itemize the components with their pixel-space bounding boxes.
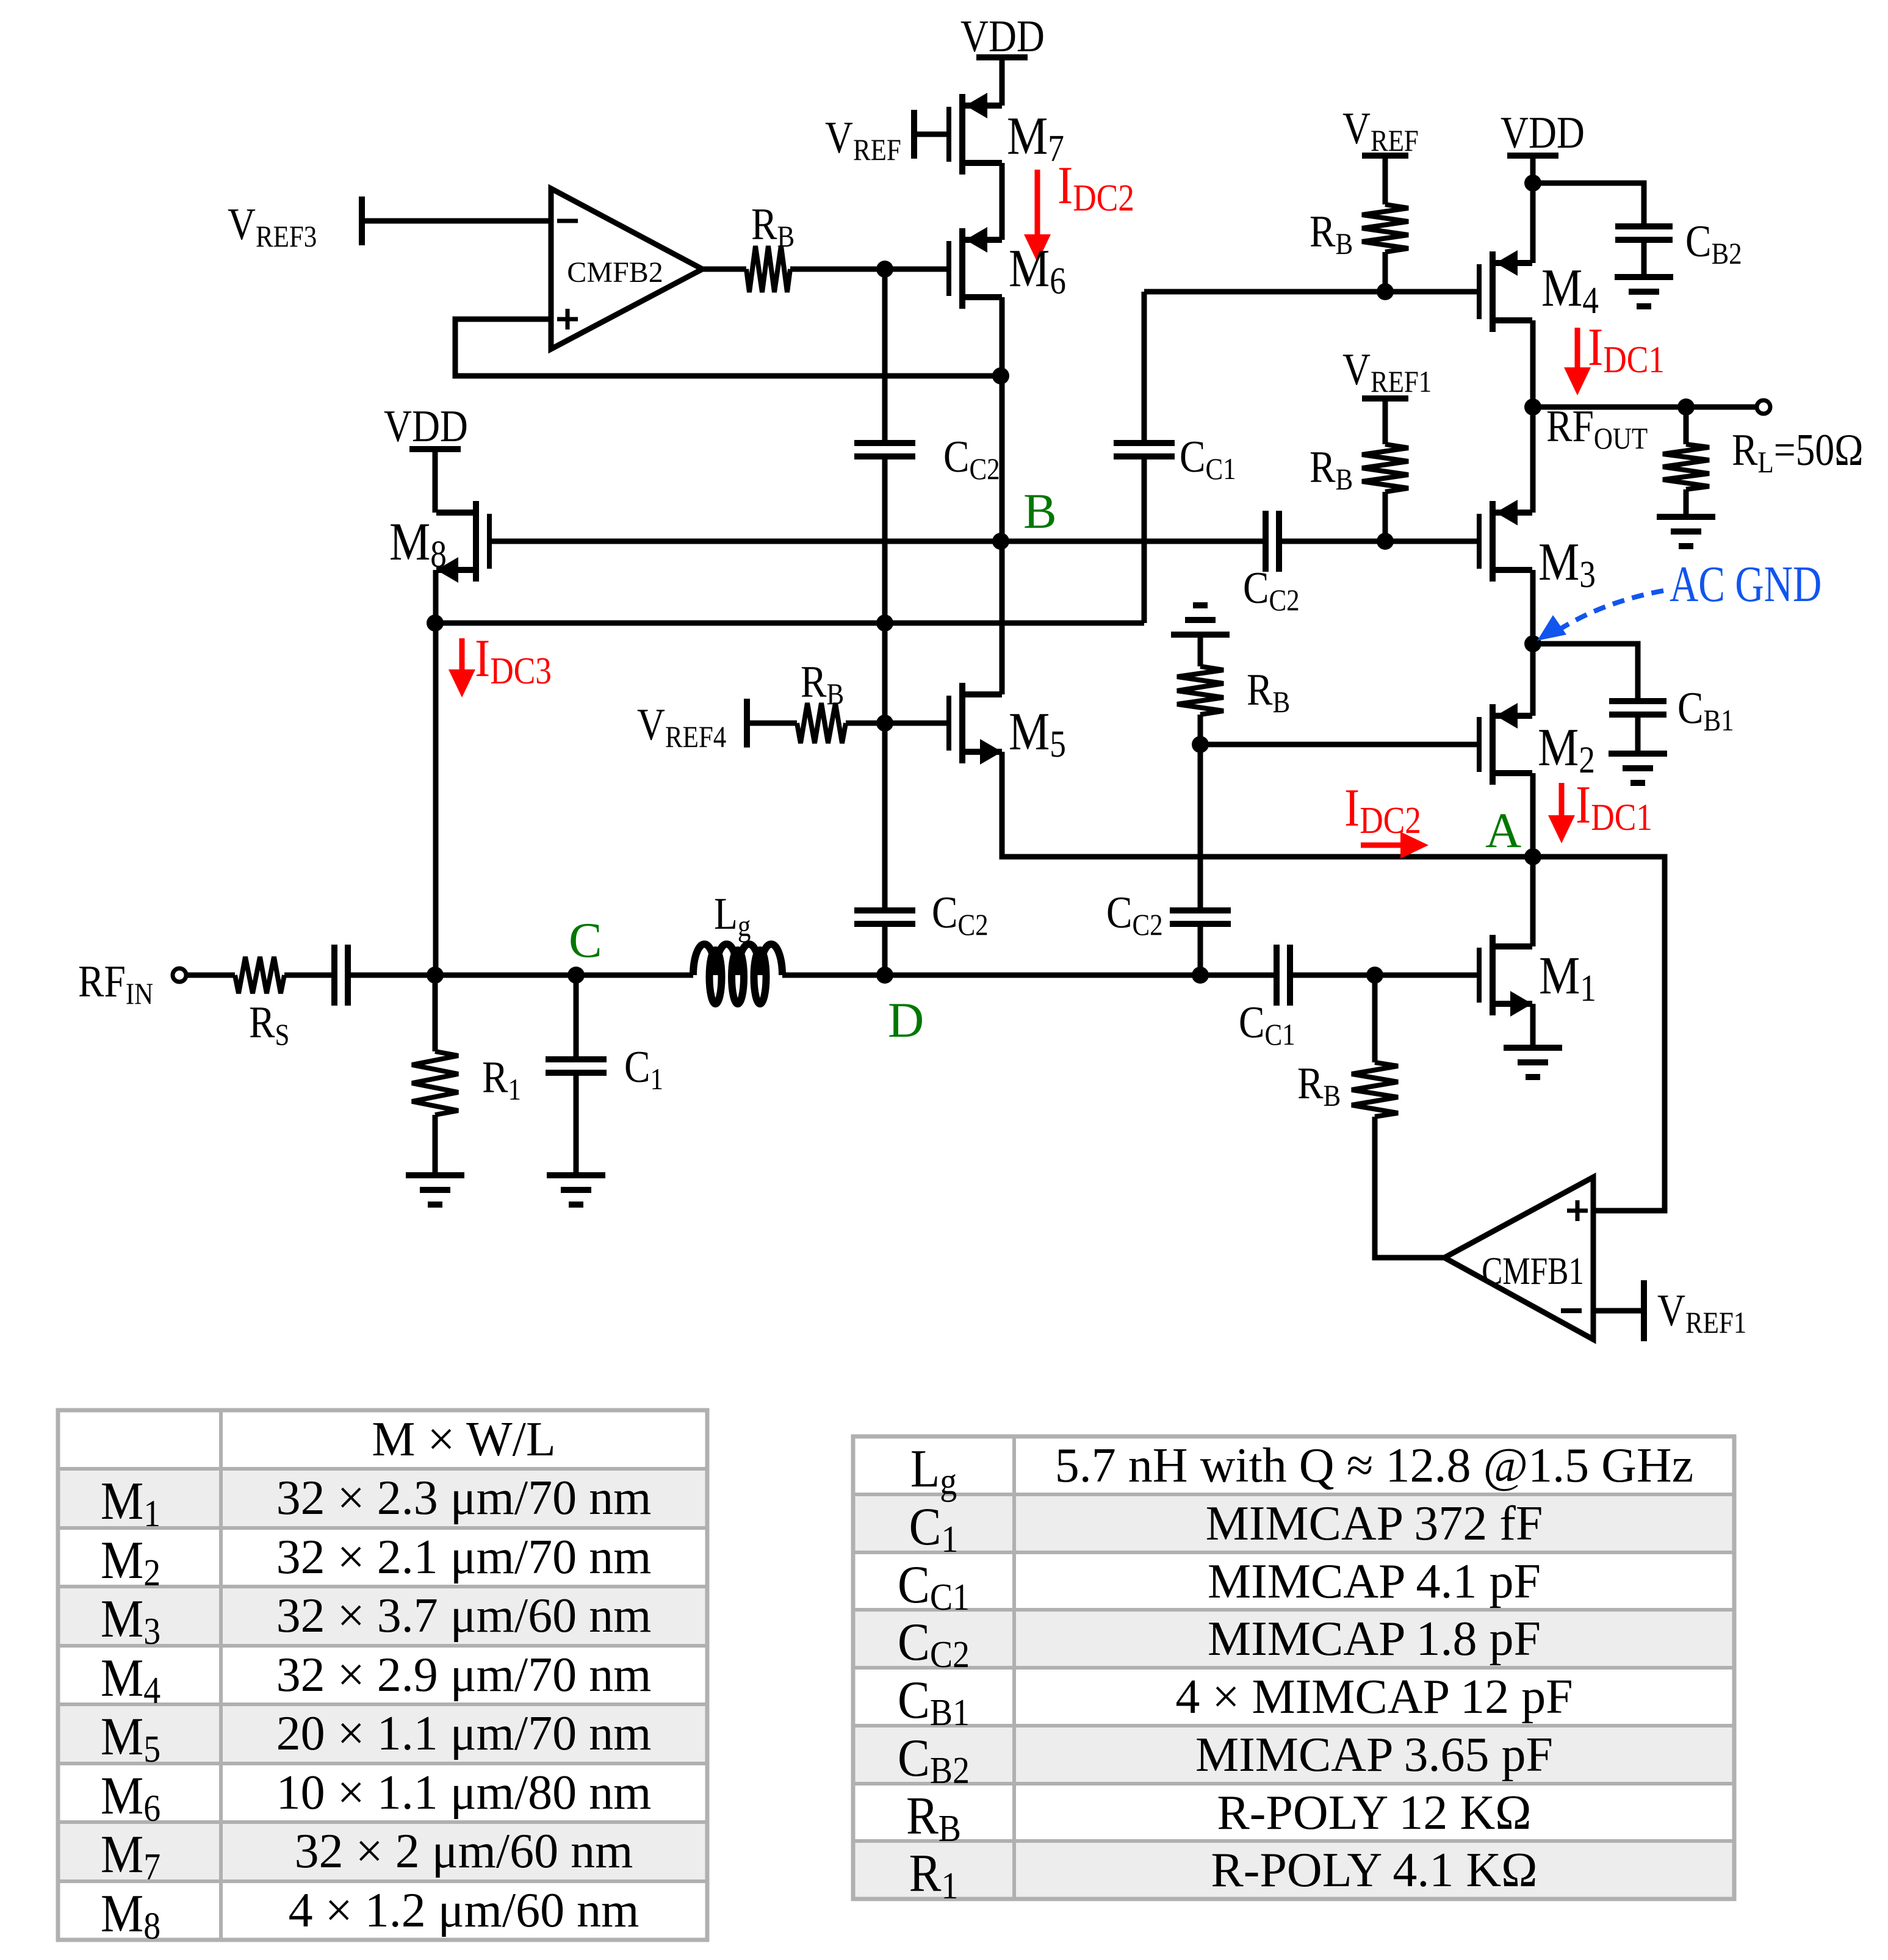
svg-text:RL=50Ω: RL=50Ω: [1732, 425, 1864, 480]
node dot VDD/CB2 junction: [1524, 175, 1541, 192]
svg-text:VDD: VDD: [1501, 108, 1585, 157]
wire RL stem: [1684, 407, 1689, 444]
svg-text:MIMCAP 372 fF: MIMCAP 372 fF: [1206, 1497, 1543, 1551]
svg-text:VDD: VDD: [960, 12, 1045, 61]
wire CC1 vertical upper to M4 gate row: [1142, 292, 1147, 443]
transistor M3: [1477, 514, 1482, 569]
wire M1-gate node to CMFB1 RB: [1372, 975, 1378, 1062]
resistor Rs: [235, 957, 284, 993]
ground (CB1): [1609, 751, 1667, 757]
node dot CC2/row junction: [876, 614, 893, 632]
wire CC2 node to CC1 series: [1200, 973, 1277, 978]
resistor R1: [412, 1051, 458, 1115]
ground (CB2): [1615, 274, 1673, 280]
terminal RFIN circle: [173, 968, 186, 982]
svg-text:32 × 2.3 μm/70 nm: 32 × 2.3 μm/70 nm: [276, 1471, 652, 1525]
wire C1 to ground: [574, 1073, 579, 1175]
wire VDD dot to CB2: [1533, 183, 1644, 223]
wire VDD to M4 source: [1530, 183, 1536, 263]
wire CC1 vertical lower: [1142, 456, 1147, 623]
resistor RB (M5 gate bias): [797, 703, 846, 743]
wire M4 drain to RFOUT node: [1530, 320, 1536, 407]
ground (R1): [406, 1172, 464, 1178]
capacitor CB1: [1609, 698, 1666, 704]
inductor Lg: [693, 944, 782, 975]
svg-text:M × W/L: M × W/L: [372, 1413, 555, 1466]
svg-text:AC GND: AC GND: [1670, 556, 1821, 613]
svg-text:32 × 2.1 μm/70 nm: 32 × 2.1 μm/70 nm: [276, 1530, 652, 1584]
table transistor sizes: [58, 1469, 707, 1528]
svg-text:VDD: VDD: [384, 402, 468, 451]
node dot RFOUT: [1524, 398, 1541, 416]
node dot A: [1524, 848, 1541, 865]
capacitor CC2 (upper compensation): [854, 440, 915, 446]
svg-text:4 × 1.2 μm/60 nm: 4 × 1.2 μm/60 nm: [289, 1884, 640, 1937]
wire AC-GND node to CB1: [1533, 644, 1638, 698]
wire RL to ground: [1684, 489, 1689, 517]
svg-text:B: B: [1023, 483, 1057, 539]
wire CC2 to row: [882, 456, 888, 623]
capacitor CC1 (series at RF row): [1274, 945, 1280, 1006]
svg-text:5.7 nH with Q ≈ 12.8 @1.5 GHz: 5.7 nH with Q ≈ 12.8 @1.5 GHz: [1055, 1439, 1693, 1493]
wire M5-gate node down to CC2: [882, 723, 888, 910]
ground (RL): [1657, 514, 1715, 520]
CMFB2 plus sign: [557, 317, 578, 322]
wire RB to M2 gate node: [1198, 715, 1203, 744]
terminal VREF (M7 gate): [911, 110, 917, 159]
terminal VREF (M4 branch): [1362, 153, 1408, 159]
svg-text:10 × 1.1 μm/80 nm: 10 × 1.1 μm/80 nm: [276, 1766, 652, 1820]
capacitor CC2 (left lower): [854, 907, 915, 913]
ground (C1): [547, 1172, 605, 1178]
wire M2 gate row: [1200, 742, 1477, 748]
wire inv-ground to RB: [1198, 635, 1203, 666]
wire M8-drain row: [435, 621, 1144, 626]
wire CB1 to ground: [1635, 715, 1641, 754]
capacitor CC2 (series at B): [1263, 511, 1269, 572]
resistor RB (M2 gate bias): [1177, 666, 1223, 715]
resistor RB (M4 gate bias): [1362, 204, 1408, 252]
wire M2-gate node down to CC2: [1198, 744, 1203, 910]
wire RB to M4 gate row: [1383, 252, 1388, 292]
transistor M6: [946, 241, 951, 296]
power VDD symbol (M4 branch): [1507, 153, 1558, 159]
svg-text:MIMCAP 3.65 pF: MIMCAP 3.65 pF: [1195, 1728, 1553, 1782]
current arrow IDC3: [459, 638, 465, 669]
svg-text:D: D: [888, 992, 924, 1048]
node dot M8 drain row junction: [427, 614, 444, 632]
wire M2 source to AC-GND node: [1530, 644, 1536, 716]
svg-text:A: A: [1485, 802, 1521, 858]
node dot M5 gate node: [876, 715, 893, 732]
wire R1 to ground: [433, 1115, 438, 1175]
capacitor C1: [546, 1056, 607, 1062]
node dot M2 gate node: [1192, 736, 1209, 753]
node dot B: [992, 533, 1009, 550]
transistor M4: [1477, 264, 1482, 319]
svg-text:32 × 2.9 μm/70 nm: 32 × 2.9 μm/70 nm: [276, 1648, 652, 1702]
current arrow IDC1 (M4 branch): [1575, 328, 1580, 367]
AC GND dashed pointer: [1558, 591, 1663, 630]
power VDD symbol (M8 branch): [409, 446, 461, 452]
wire VREF1 to RB (M3): [1383, 398, 1388, 444]
node dot CC2/RF row: [1192, 967, 1209, 984]
capacitor CB2: [1615, 223, 1673, 229]
transistor M5: [946, 696, 951, 751]
resistor RB (CMFB2 output): [746, 246, 790, 292]
capacitor C1 stem: [574, 975, 579, 1059]
node dot RF/M8 junction: [427, 967, 444, 984]
capacitor CC2 (right lower): [1170, 907, 1231, 913]
resistor RL: [1663, 444, 1709, 489]
wire M8 gate row to node B: [492, 539, 1266, 544]
wire M7 drain to M6 source: [1000, 163, 1005, 240]
wire RB to M5 gate node: [846, 721, 885, 726]
wire CC2 to node D: [882, 924, 888, 975]
op-amp CMFB2: [551, 189, 702, 349]
transistor M7: [946, 107, 951, 162]
wire CC1 to RB node: [1290, 973, 1375, 978]
wire VREF4 to RB: [747, 721, 797, 726]
svg-text:R-POLY 12 KΩ: R-POLY 12 KΩ: [1217, 1786, 1531, 1840]
transistor M1: [1477, 948, 1482, 1003]
wire RB to CMFB1 output: [1375, 1117, 1444, 1258]
svg-text:4 × MIMCAP 12 pF: 4 × MIMCAP 12 pF: [1175, 1670, 1573, 1724]
node dot M4 gate row: [1377, 283, 1394, 300]
wire M3 source to RFOUT: [1530, 407, 1536, 513]
wire CMFB1 minus to VREF1: [1593, 1308, 1644, 1314]
wire VDD stem for M7: [1000, 60, 1005, 106]
current arrow IDC1 (M2 branch): [1559, 783, 1565, 815]
table passive component values: [853, 1494, 1734, 1552]
capacitor input coupling: [331, 945, 337, 1006]
wire VREF to M7 gate: [914, 132, 946, 137]
wire M6-gate vertical to CC2: [882, 269, 888, 443]
wire VDD stem M8: [433, 452, 438, 513]
node dot M6 gate node: [876, 261, 893, 278]
svg-text:CMFB2: CMFB2: [567, 256, 663, 289]
terminal VREF1 (CMFB1): [1641, 1280, 1647, 1341]
wire RB to M3 gate row: [1383, 492, 1388, 541]
capacitor CC1 (compensation): [1114, 440, 1175, 446]
wire M5 gate node to gate: [885, 721, 946, 726]
CMFB2 minus sign: [557, 219, 578, 223]
transistor M8: [487, 514, 492, 569]
wire RFOUT row: [1533, 405, 1757, 410]
wire VREF3 to CMFB2 minus input: [362, 218, 551, 224]
wire M2 drain to node A: [1530, 773, 1536, 857]
terminal VREF3: [359, 196, 365, 245]
wire M4 gate row: [1144, 289, 1477, 295]
node dot M1 gate node: [1366, 967, 1383, 984]
op-amp CMFB1: [1444, 1177, 1593, 1339]
wire M6 gate node to gate: [885, 267, 946, 272]
svg-text:CMFB1: CMFB1: [1482, 1249, 1584, 1293]
svg-text:MIMCAP 4.1 pF: MIMCAP 4.1 pF: [1208, 1555, 1541, 1609]
wire input cap to M8 rail: [348, 973, 435, 978]
wire M3 drain to AC-GND node: [1530, 570, 1536, 644]
terminal VREF4: [744, 699, 750, 748]
current arrow IDC2 (A row): [1361, 843, 1400, 848]
current arrow IDC2 (M7 branch): [1035, 170, 1040, 234]
wire M1 source to ground: [1530, 1004, 1536, 1048]
resistor RB (CMFB1): [1352, 1062, 1398, 1117]
wire M6-gate vertical mid section: [882, 623, 888, 723]
wire CC2 to RF row: [1198, 924, 1203, 975]
wire rail B to M5: [1000, 541, 1005, 694]
wire to M1 gate: [1375, 973, 1477, 978]
wire CMFB2 output: [702, 267, 746, 272]
wire to node C: [435, 973, 576, 978]
wire D to CC2 node: [885, 973, 1200, 978]
node dot M3 gate row: [1377, 533, 1394, 550]
svg-text:R-POLY 4.1 KΩ: R-POLY 4.1 KΩ: [1211, 1843, 1537, 1897]
terminal RFOUT circle: [1757, 400, 1770, 414]
power VDD symbol (M7 branch): [976, 54, 1028, 60]
wire M1 drain to node A: [1530, 857, 1536, 946]
node dot RL junction: [1677, 398, 1695, 416]
CMFB1 minus sign: [1561, 1308, 1582, 1313]
wire VDD stem M4: [1530, 159, 1536, 183]
node dot AC-GND node: [1524, 635, 1541, 652]
ground (M1): [1504, 1045, 1562, 1051]
wire A row to CMFB1 plus: [1533, 857, 1665, 1211]
wire CC2 to M3 gate: [1279, 539, 1477, 544]
wire RB to M6 gate node: [790, 267, 885, 272]
wire M8 drain rail: [433, 570, 439, 975]
resistor RB (M3 gate bias): [1362, 444, 1408, 492]
wire M5 source down and A row: [1002, 752, 1533, 857]
terminal VREF1 (M3 branch): [1362, 395, 1408, 402]
wire VREF to RB (M4): [1383, 156, 1388, 204]
svg-text:32 × 2 μm/60 nm: 32 × 2 μm/60 nm: [295, 1825, 633, 1878]
svg-text:32 × 3.7 μm/60 nm: 32 × 3.7 μm/60 nm: [276, 1589, 652, 1643]
CMFB1 plus sign: [1567, 1209, 1588, 1213]
svg-text:20 × 1.1 μm/70 nm: 20 × 1.1 μm/70 nm: [276, 1707, 652, 1760]
svg-text:MIMCAP 1.8 pF: MIMCAP 1.8 pF: [1208, 1612, 1541, 1666]
node dot feedback-rail junction: [992, 367, 1009, 384]
wire M6 drain rail down: [1000, 297, 1005, 541]
wire Rs to input cap: [284, 973, 334, 978]
wire RFIN to Rs: [186, 973, 235, 978]
svg-text:C: C: [569, 912, 602, 968]
wire Lg to node D: [782, 973, 885, 978]
transistor M2: [1477, 717, 1482, 772]
ground symbol inverted (M2 bias): [1171, 632, 1230, 638]
wire CMFB2 plus feedback loop: [455, 319, 1001, 376]
wire CB2 to ground: [1641, 240, 1647, 277]
resistor R1 branch wire: [433, 975, 438, 1051]
node dot C: [567, 967, 585, 984]
wire C to Lg: [576, 973, 693, 978]
node dot D: [876, 967, 893, 984]
